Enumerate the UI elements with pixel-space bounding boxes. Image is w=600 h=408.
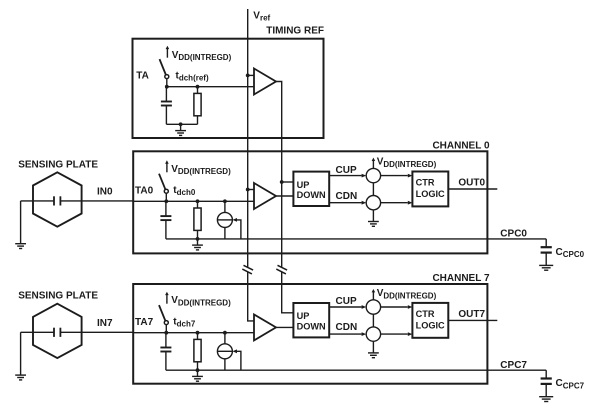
svg-text:TIMING REF: TIMING REF <box>266 25 324 36</box>
svg-text:DOWN: DOWN <box>297 190 326 200</box>
svg-text:UP: UP <box>297 311 310 321</box>
svg-text:SENSING PLATE: SENSING PLATE <box>18 291 98 302</box>
svg-text:TA0: TA0 <box>135 186 154 197</box>
svg-text:OUT0: OUT0 <box>458 178 485 189</box>
svg-text:CHANNEL 7: CHANNEL 7 <box>432 273 489 284</box>
svg-text:CTR: CTR <box>416 309 435 319</box>
svg-text:DOWN: DOWN <box>297 321 326 331</box>
svg-text:CUP: CUP <box>336 165 357 176</box>
svg-text:CTR: CTR <box>416 178 435 188</box>
svg-text:IN7: IN7 <box>97 318 113 329</box>
svg-text:CDN: CDN <box>336 191 358 202</box>
svg-text:LOGIC: LOGIC <box>416 189 445 199</box>
svg-text:IN0: IN0 <box>97 187 113 198</box>
svg-text:SENSING PLATE: SENSING PLATE <box>18 159 98 170</box>
svg-text:CUP: CUP <box>336 296 357 307</box>
svg-text:TA7: TA7 <box>135 317 154 328</box>
svg-text:CPC7: CPC7 <box>500 360 527 371</box>
svg-text:OUT7: OUT7 <box>458 309 485 320</box>
svg-text:CDN: CDN <box>336 322 358 333</box>
svg-text:UP: UP <box>297 180 310 190</box>
svg-text:TA: TA <box>136 70 149 81</box>
svg-text:CHANNEL 0: CHANNEL 0 <box>432 140 489 151</box>
svg-text:CPC0: CPC0 <box>500 229 527 240</box>
svg-text:LOGIC: LOGIC <box>416 321 445 331</box>
